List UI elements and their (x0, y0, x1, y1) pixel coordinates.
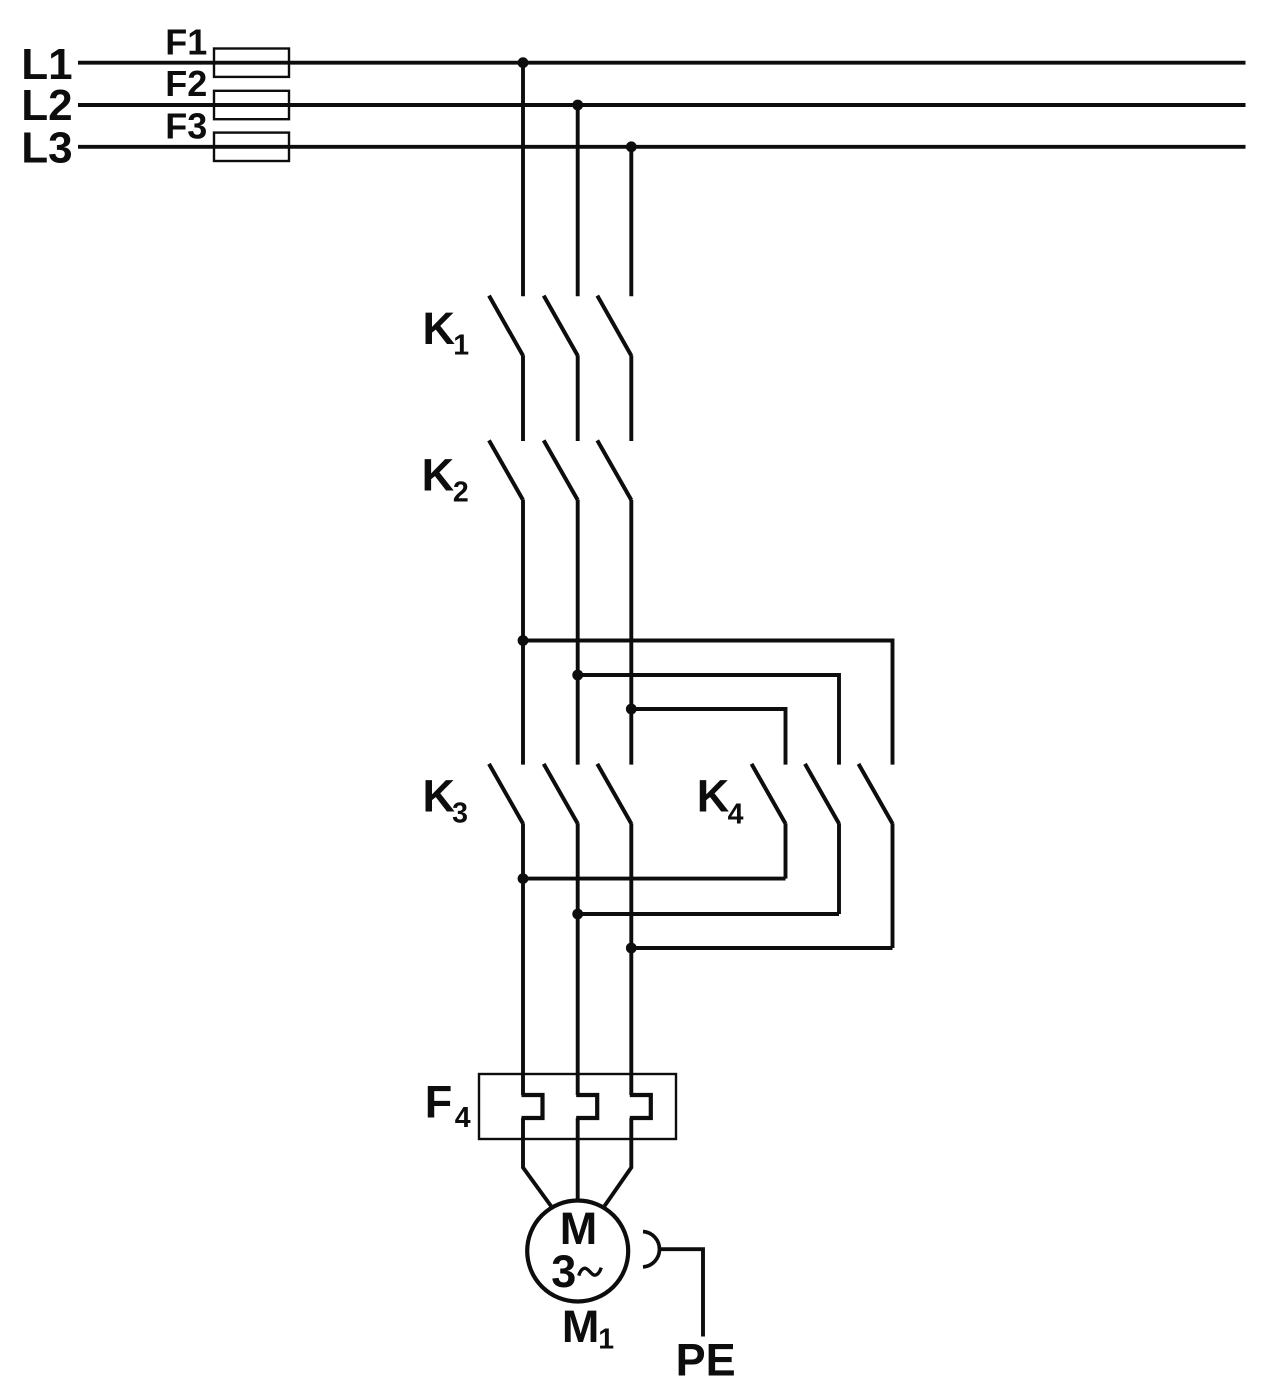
svg-text:F2: F2 (165, 63, 207, 104)
svg-text:3: 3 (452, 798, 468, 830)
svg-text:F1: F1 (165, 21, 207, 62)
svg-text:1: 1 (598, 1324, 614, 1356)
svg-text:K: K (423, 303, 456, 354)
svg-text:K: K (697, 771, 730, 822)
svg-text:F3: F3 (165, 106, 207, 147)
svg-text:2: 2 (453, 476, 469, 508)
svg-text:F: F (425, 1077, 453, 1128)
svg-text:1: 1 (453, 329, 469, 361)
svg-text:K: K (422, 449, 455, 500)
svg-text:PE: PE (676, 1334, 736, 1385)
svg-text:4: 4 (455, 1102, 471, 1134)
svg-text:K: K (423, 771, 456, 822)
svg-text:3: 3 (551, 1246, 576, 1297)
svg-text:M: M (562, 1301, 600, 1352)
svg-text:4: 4 (728, 798, 744, 830)
svg-text:L3: L3 (21, 124, 72, 173)
